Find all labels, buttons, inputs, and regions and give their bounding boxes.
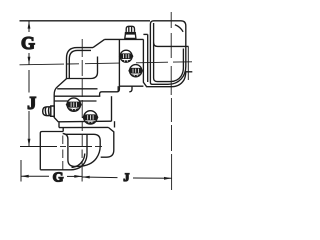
elbow inner corner piece bbox=[101, 127, 114, 157]
screw S1 on horizontal body bbox=[119, 50, 134, 62]
node J dimension bottom bbox=[82, 176, 172, 180]
corner piece (elbow bend cap) bbox=[67, 39, 105, 78]
node G dimension bottom bbox=[21, 175, 82, 178]
svg-text:G: G bbox=[53, 170, 64, 185]
screw S3 on vertical body bbox=[66, 98, 82, 111]
wire horizontal centerline of bottom socket bbox=[20, 146, 102, 148]
svg-text:G: G bbox=[21, 33, 35, 53]
screw S4 on vertical body bbox=[82, 111, 98, 124]
svg-text:J: J bbox=[123, 170, 129, 184]
screw S2 on horizontal body bbox=[128, 65, 143, 77]
bolt on top of body bbox=[125, 26, 136, 38]
nut (right socket) bbox=[150, 21, 192, 85]
node nut vertical centerline bbox=[170, 12, 172, 190]
node socket vertical centerline bbox=[62, 136, 64, 171]
wire right stub under facet line bbox=[187, 46, 189, 80]
wire bottom left extension line bbox=[20, 160, 22, 182]
vertical clamp body bbox=[54, 79, 112, 123]
boss under body bbox=[100, 39, 132, 96]
node G dimension vertical bbox=[28, 21, 31, 65]
bolt on left of body bbox=[43, 106, 55, 116]
clamp bottom flange bbox=[59, 121, 115, 127]
node J dimension vertical bbox=[28, 70, 31, 147]
svg-text:J: J bbox=[27, 93, 36, 113]
horizontal clamp body bbox=[105, 39, 186, 86]
wire horizontal centerline of upper leg bbox=[20, 62, 193, 65]
wire top extension line bbox=[20, 20, 151, 22]
gland follower ring bbox=[143, 34, 147, 82]
socket (bottom outlet) bbox=[40, 128, 100, 170]
wire bottom middle extension (corner centerline continuation) bbox=[81, 150, 83, 182]
node corner vertical centerline bbox=[81, 39, 83, 146]
